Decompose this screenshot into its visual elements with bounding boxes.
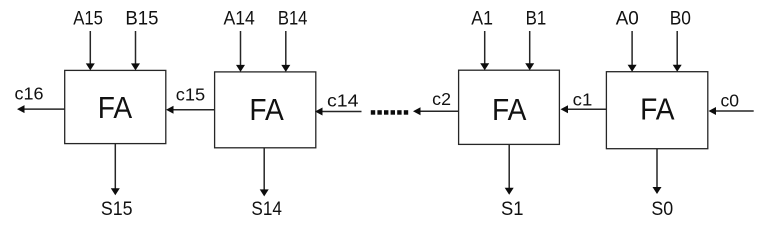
svg-text:A14: A14 <box>224 9 256 30</box>
svg-text:FA: FA <box>640 92 675 127</box>
svg-text:B0: B0 <box>670 9 691 30</box>
svg-text:A15: A15 <box>73 9 103 30</box>
svg-text:S14: S14 <box>251 198 282 220</box>
svg-text:S1: S1 <box>501 198 524 220</box>
svg-text:c15: c15 <box>176 85 205 105</box>
svg-text:FA: FA <box>249 92 284 127</box>
svg-text:B15: B15 <box>125 9 158 30</box>
svg-text:B1: B1 <box>526 9 547 30</box>
svg-text:c14: c14 <box>327 90 359 110</box>
svg-text:c1: c1 <box>573 89 593 109</box>
svg-text:FA: FA <box>492 92 527 127</box>
svg-text:c0: c0 <box>721 90 740 110</box>
svg-text:A1: A1 <box>471 9 493 30</box>
svg-text:B14: B14 <box>278 9 308 30</box>
svg-text:FA: FA <box>98 90 133 125</box>
svg-text:c2: c2 <box>432 89 451 109</box>
svg-text:c16: c16 <box>15 83 44 103</box>
svg-text:A0: A0 <box>616 9 639 30</box>
svg-text:S15: S15 <box>101 198 133 220</box>
svg-text:S0: S0 <box>651 198 673 220</box>
